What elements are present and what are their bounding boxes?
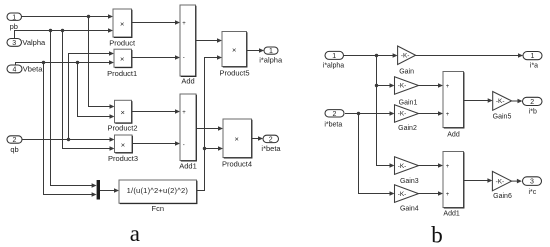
wire Add to Product5 in1 (196, 38, 222, 43)
product Product2 (107, 100, 137, 132)
svg-text:-K-: -K- (496, 98, 505, 105)
svg-text:-K-: -K- (401, 52, 410, 59)
wire i*beta to Gain2 (345, 111, 395, 116)
wire qb branch to Product1 in1 (69, 51, 115, 139)
wire Add to Gain5 (464, 98, 493, 103)
svg-text:×: × (121, 140, 125, 149)
wire Product5 to outport i*alpha (247, 48, 264, 53)
svg-text:qb: qb (10, 145, 18, 154)
outport 2 i*beta (261, 135, 281, 153)
wire pb branch to Product2 in1 (89, 17, 115, 109)
svg-text:×: × (232, 45, 236, 54)
svg-text:i*alpha: i*alpha (259, 56, 283, 65)
svg-text:4: 4 (13, 67, 17, 74)
fcn Fcn (119, 180, 197, 213)
wire i*alpha branch to Gain1 (377, 83, 395, 88)
svg-text:Product5: Product5 (219, 68, 249, 77)
svg-text:+: + (182, 110, 186, 116)
product Product5 (219, 32, 249, 78)
wire feedback branch to Product4 in2 (203, 146, 223, 151)
svg-text:-K-: -K- (398, 111, 407, 118)
wire Gain4 to Add1 in2 (419, 191, 444, 196)
svg-text:×: × (120, 20, 124, 29)
svg-text:-K-: -K- (496, 178, 505, 185)
svg-text:Product1: Product1 (107, 69, 137, 78)
svg-text:Gain1: Gain1 (399, 100, 418, 107)
svg-text:i*alpha: i*alpha (323, 63, 345, 70)
svg-text:Gain2: Gain2 (398, 125, 417, 132)
svg-text:+: + (446, 164, 450, 170)
svg-text:2: 2 (530, 99, 534, 106)
svg-text:i*a: i*a (530, 63, 538, 70)
svg-text:i*b: i*b (529, 108, 537, 115)
svg-text:Gain5: Gain5 (493, 114, 512, 121)
svg-text:×: × (121, 108, 125, 117)
svg-text:1: 1 (332, 53, 336, 60)
sum Add (b) (443, 72, 464, 139)
product Product (109, 9, 136, 47)
svg-text:b: b (431, 223, 443, 247)
svg-text:Fcn: Fcn (152, 204, 165, 213)
svg-text:Gain4: Gain4 (400, 206, 419, 213)
wire Product1 to Add in2 (132, 55, 180, 60)
gain Gain1 (395, 77, 419, 107)
svg-text:a: a (130, 221, 140, 246)
wire i*alpha to Gain (344, 53, 398, 58)
svg-text:+: + (446, 112, 450, 118)
outport 2 i*b (523, 97, 543, 115)
sum Add (180, 5, 196, 86)
wire Gain3 to Add1 in1 (419, 163, 444, 168)
wire Product3 to Add1 in2 (132, 141, 180, 146)
outport 3 i*c (523, 177, 542, 196)
svg-text:-: - (183, 142, 185, 148)
svg-text:Product3: Product3 (108, 154, 138, 163)
wire Product2 to Add1 in1 (132, 109, 180, 114)
inport 2 i*beta (324, 110, 344, 129)
wire Vbeta branch to Mux in2 (44, 63, 97, 197)
svg-text:-: - (183, 55, 185, 61)
svg-text:Add1: Add1 (179, 161, 197, 170)
outport 1 i*alpha (259, 47, 283, 65)
svg-text:+: + (446, 192, 450, 198)
sum Add1 (179, 94, 197, 170)
wire Fcn feedback to Product5 in2 (197, 55, 222, 190)
wire Gain2 to Add in2 (419, 111, 444, 116)
svg-text:+: + (182, 21, 186, 27)
svg-text:+: + (446, 84, 450, 90)
svg-text:Add: Add (181, 77, 194, 86)
inport 4 Vbeta (7, 65, 43, 74)
svg-text:1: 1 (12, 14, 16, 21)
wire Vbeta branch to Product2 in2 (78, 63, 115, 119)
wire Product4 to outport i*beta (252, 136, 263, 141)
svg-text:-K-: -K- (398, 191, 407, 198)
svg-text:3: 3 (12, 40, 16, 47)
inport 1 i*alpha (323, 51, 345, 69)
wire qb to Product3 in1 (22, 137, 115, 142)
svg-text:1: 1 (531, 53, 535, 60)
wire Gain to outport i*a (416, 53, 523, 58)
svg-text:-K-: -K- (398, 163, 407, 170)
inport 1 pb (7, 13, 22, 31)
svg-text:×: × (120, 55, 124, 64)
svg-text:i*c: i*c (529, 189, 537, 196)
wire pb to Product in1 (22, 14, 114, 19)
product Product1 (107, 49, 137, 78)
product Product3 (108, 135, 138, 163)
wire Valpha branch to Mux in1 (51, 31, 97, 188)
wire Add1 to Product4 in1 (196, 126, 223, 131)
outport 1 i*a (523, 52, 542, 70)
svg-text:Gain: Gain (399, 69, 414, 76)
wire Valpha branch to Product3 in2 (63, 31, 115, 151)
svg-text:Gain6: Gain6 (493, 193, 512, 200)
wire Gain6 to outport i*c (512, 179, 522, 184)
wire Mux to Fcn (100, 188, 119, 193)
sum Add1 (b) (443, 152, 464, 218)
mux Mux (97, 180, 100, 200)
gain Gain5 (493, 92, 512, 121)
inport 2 qb (7, 136, 22, 154)
svg-text:Valpha: Valpha (22, 38, 46, 47)
gain Gain4 (395, 185, 419, 213)
wire Vbeta to Product1 in2 (16, 60, 115, 65)
svg-text:Product4: Product4 (222, 159, 252, 168)
product Product4 (222, 119, 252, 168)
svg-text:Gain3: Gain3 (400, 178, 419, 185)
wire Valpha to Product in2 (15, 28, 114, 38)
svg-text:-K-: -K- (398, 83, 407, 90)
gain Gain6 (492, 171, 512, 200)
gain Gain2 (395, 105, 419, 133)
svg-text:1/(u(1)^2+u(2)^2): 1/(u(1)^2+u(2)^2) (127, 186, 189, 195)
wire Gain5 to outport i*b (512, 99, 523, 104)
svg-text:Product2: Product2 (107, 123, 137, 132)
svg-text:1: 1 (269, 48, 273, 55)
svg-text:Add: Add (447, 131, 460, 138)
inport 3 Valpha (7, 38, 46, 47)
gain Gain (398, 46, 416, 76)
svg-text:2: 2 (13, 137, 17, 144)
wire i*beta branch to Gain4 (359, 114, 395, 196)
wire i*alpha branch down to Gain3 (375, 56, 395, 168)
svg-text:i*beta: i*beta (261, 144, 281, 153)
wire Gain1 to Add in1 (419, 83, 444, 88)
svg-text:i*beta: i*beta (324, 121, 342, 128)
svg-text:2: 2 (333, 111, 337, 118)
svg-text:Add1: Add1 (443, 210, 459, 217)
svg-text:3: 3 (530, 179, 534, 186)
svg-text:2: 2 (269, 137, 273, 144)
svg-text:Vbeta: Vbeta (23, 65, 43, 74)
wire Add1 to Gain6 (464, 178, 493, 183)
svg-text:×: × (235, 135, 239, 144)
svg-text:Product: Product (109, 38, 136, 47)
wire Product to Add in1 (132, 20, 180, 25)
gain Gain3 (395, 157, 419, 185)
svg-text:pb: pb (10, 22, 18, 31)
